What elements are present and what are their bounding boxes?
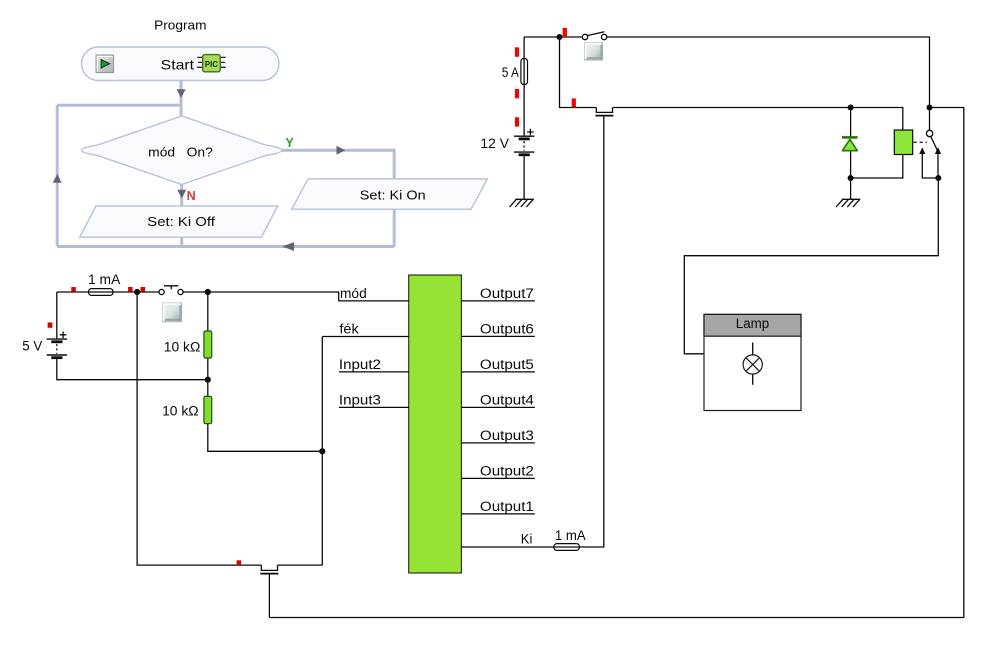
- battery B1 5V plates: [47, 339, 67, 358]
- wire pin Output5 stub: [461, 371, 535, 373]
- label pin fek: [339, 321, 359, 336]
- wire top bus from 5A fuse branch to switch SW1: [524, 36, 582, 38]
- node D junction dot (between resistors): [205, 377, 211, 383]
- wire lamp feed: down, left and into lamp: [684, 178, 938, 354]
- resistor R1 10 kOhm: [204, 331, 212, 358]
- svg-text:Output5: Output5: [480, 357, 534, 372]
- wire diode branch vertical: [850, 108, 852, 200]
- wire supply branch: node A down to transistor row: [560, 37, 597, 108]
- svg-text:Output4: Output4: [480, 393, 535, 408]
- wire fek to IC: [322, 336, 408, 338]
- svg-text:Set: Ki Off: Set: Ki Off: [147, 214, 215, 229]
- svg-text:fék: fék: [339, 321, 359, 336]
- wire left loop down to transistor Q2: [137, 292, 261, 565]
- battery B2 12V plus sign: [527, 129, 534, 136]
- wire start-to-decision connector: [180, 81, 183, 117]
- fuse F3 1 mA: [554, 544, 580, 551]
- svg-text:Input2: Input2: [339, 357, 381, 372]
- current marker red (below fuse F2): [515, 89, 519, 98]
- keycap button for SW1: [585, 43, 603, 61]
- arrowhead up on loop-back: [53, 174, 62, 183]
- label 12 V: [480, 136, 509, 151]
- label pin Output5: [480, 357, 534, 372]
- current marker red (left of fuse F1): [71, 287, 76, 292]
- label N (no branch): [187, 189, 196, 203]
- node diode-top junction dot: [848, 105, 854, 111]
- resistor R2 10 kOhm: [204, 396, 212, 423]
- transistor Q1 (channel dip and gate): [595, 108, 613, 116]
- label pin Output6: [480, 322, 534, 337]
- svg-text:12 V: 12 V: [480, 136, 509, 151]
- svg-text:Start: Start: [161, 56, 195, 72]
- wire contact throws to lamp feed node: [922, 153, 938, 179]
- wire pin Input2 stub: [339, 371, 409, 373]
- arrowhead left on bottom rail: [282, 242, 294, 251]
- node contact output junction dot: [935, 175, 941, 181]
- node diode-bottom junction dot: [848, 175, 854, 181]
- svg-text:N: N: [187, 189, 196, 203]
- wire flowchart loop-back (left vertical + top + bottom rail): [57, 105, 394, 246]
- relay throw contact arrows: [919, 147, 941, 154]
- label pin Ki: [521, 531, 533, 546]
- label pin Output4: [480, 393, 535, 408]
- wire pin Output2 stub: [461, 477, 535, 479]
- wire pin Output4 stub: [461, 406, 535, 408]
- relay contact pivot and blade: [926, 130, 937, 150]
- node B junction dot: [134, 289, 140, 295]
- wire pin Output3 stub: [461, 442, 535, 444]
- svg-text:Lamp: Lamp: [736, 316, 769, 331]
- arrowhead into decision: [177, 89, 186, 98]
- fuse F1 1 mA: [89, 289, 114, 296]
- label pin Output2: [480, 464, 534, 479]
- arrowhead on N branch: [177, 190, 186, 199]
- svg-text:Y: Y: [285, 136, 294, 150]
- node C junction dot (top of resistor chain): [205, 289, 211, 295]
- label pin Input2: [339, 357, 381, 372]
- wire transistor row to relay/diode nodes: [613, 108, 903, 131]
- svg-text:1 mA: 1 mA: [555, 528, 586, 543]
- lamp symbol inside panel: [743, 343, 762, 385]
- current marker red (node A): [563, 28, 567, 37]
- svg-text:Input3: Input3: [339, 393, 381, 408]
- current marker red (right of fuse F1): [128, 287, 133, 292]
- ground below battery B2: [510, 199, 534, 207]
- svg-text:Output7: Output7: [480, 286, 534, 301]
- wire top bus from switch SW1 to top-right corner, down to relay node: [607, 37, 930, 130]
- lamp panel box with title bar: [704, 314, 801, 410]
- svg-text:Output3: Output3: [480, 428, 534, 443]
- svg-text:Ki: Ki: [521, 531, 533, 546]
- wire pin Output1 stub: [461, 513, 535, 515]
- arrowhead on Y branch: [337, 146, 346, 155]
- svg-text:PIC: PIC: [205, 59, 218, 69]
- label pin Input3: [339, 393, 381, 408]
- relay K1 actuating dashed link: [914, 141, 928, 143]
- relay K1 coil (green box): [894, 130, 912, 155]
- label 1 mA (fuse F3): [555, 528, 586, 543]
- wire bottom bus from push button PB1 to IC mod pin (with jog): [183, 292, 409, 301]
- node E junction dot (fek tap): [319, 448, 325, 454]
- node A junction dot: [557, 34, 563, 40]
- svg-text:Output2: Output2: [480, 464, 534, 479]
- push button PB1 contacts and actuator: [159, 286, 183, 295]
- wire resistor chain: [208, 292, 322, 451]
- svg-text:10 kΩ: 10 kΩ: [162, 404, 199, 419]
- start block label: [161, 56, 195, 72]
- IC U1 (microcontroller block): [409, 275, 462, 573]
- wire Y-branch connector: [281, 150, 394, 246]
- wire pin Input3 stub: [339, 406, 409, 408]
- svg-text:1 mA: 1 mA: [88, 272, 120, 287]
- flowchart decision diamond: [82, 116, 282, 185]
- wire bottom bus from 5V battery to push button PB1: [57, 291, 159, 293]
- run icon (play button): [96, 55, 114, 73]
- current marker red (above fuse F2): [515, 47, 519, 57]
- flowchart block Set: Ki Off (parallelogram): [80, 206, 278, 237]
- wire N-branch connector: [180, 185, 183, 247]
- wire 5A fuse / 12V battery branch: [523, 37, 525, 199]
- label 5 V: [22, 338, 42, 353]
- svg-text:mód: mód: [340, 286, 367, 301]
- transistor Q2 (channel dip and gate): [260, 565, 322, 574]
- label 10 kOhm (R1): [164, 339, 201, 354]
- wire Q1 gate lead down to Ki fuse: [579, 117, 603, 548]
- current marker red (before transistor Q1): [572, 98, 576, 107]
- battery B1 5V plus sign: [60, 332, 67, 339]
- PIC chip icon in start block: [197, 55, 226, 72]
- current marker red (above battery B1): [48, 322, 53, 327]
- label 1 mA (fuse F1): [88, 272, 120, 287]
- svg-text:mód On?: mód On?: [148, 145, 213, 160]
- wire pin Output7 stub: [461, 300, 535, 302]
- svg-text:5 A: 5 A: [502, 65, 519, 80]
- wire pin Output6 stub: [461, 335, 535, 337]
- switch SW1 contacts and lever: [582, 32, 607, 40]
- flowchart title Program: [154, 19, 206, 33]
- fuse F2 5 A: [521, 58, 528, 84]
- wire relay coil bottom to diode bottom node: [851, 155, 903, 179]
- label pin Output3: [480, 428, 534, 443]
- label pin Output7: [480, 286, 534, 301]
- svg-text:Program: Program: [154, 19, 206, 33]
- label 5 A: [502, 65, 519, 80]
- label 10 kOhm (R2): [162, 404, 199, 419]
- wire 5V battery branch: [57, 292, 208, 380]
- keycap button for PB1: [163, 303, 182, 322]
- ground below diode D1: [836, 199, 860, 207]
- svg-text:5 V: 5 V: [22, 338, 42, 353]
- diode D1 (green): [842, 137, 858, 150]
- wire relay node to far-right rail: [269, 108, 963, 618]
- current marker red (before transistor Q2): [237, 560, 242, 565]
- svg-text:Output6: Output6: [480, 322, 534, 337]
- label Y (yes branch): [285, 136, 294, 150]
- svg-text:10 kΩ: 10 kΩ: [164, 339, 201, 354]
- decision label: [148, 145, 213, 160]
- wire fek tap vertical: [321, 337, 323, 566]
- svg-text:Output1: Output1: [480, 499, 534, 514]
- current marker red (right of node B): [141, 287, 146, 292]
- flowchart block Set: Ki On (parallelogram): [292, 179, 488, 209]
- wire pin Ki to fuse F3: [461, 546, 554, 548]
- label pin mod: [340, 286, 367, 301]
- node relay pivot junction dot: [927, 105, 933, 111]
- current marker red (above battery B2): [515, 117, 519, 126]
- svg-text:Set: Ki On: Set: Ki On: [360, 188, 426, 203]
- flowchart start block (stadium): [82, 47, 280, 81]
- wire Q2 gate lead to bottom rail: [268, 575, 270, 618]
- battery B2 12V plates: [514, 136, 534, 155]
- label pin Output1: [480, 499, 534, 514]
